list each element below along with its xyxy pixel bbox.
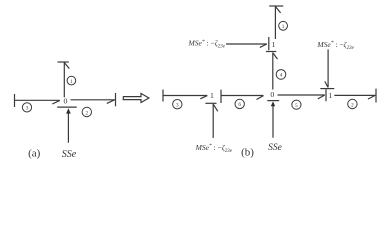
bond 1 half-arrow (a): [65, 63, 70, 69]
svg-text:1: 1: [210, 91, 214, 100]
svg-text:SSe: SSe: [268, 143, 282, 153]
svg-text:6: 6: [238, 102, 241, 108]
node label 3 (a): [22, 103, 31, 112]
wire MSe bottom-left signal (vertical): [212, 104, 214, 138]
wire MSe top-left bond: [226, 43, 267, 45]
bond 5 half-arrow: [318, 95, 325, 99]
SSe arrowhead (a): [66, 108, 71, 113]
bond 6 half-arrow: [257, 96, 264, 100]
bond 5 causal stroke: [325, 89, 327, 101]
source SSe label (a): [62, 149, 77, 160]
junction 1 right (part b): [328, 91, 332, 100]
wire bond 4 (vertical 0 to top 1): [272, 53, 274, 90]
MSe top-left half-arrow: [260, 44, 267, 47]
wire bond 2 (a right horizontal): [71, 99, 116, 101]
bond 4 causal stroke (below top 1): [266, 51, 276, 53]
svg-text:3: 3: [176, 103, 179, 109]
MSe top-left causal stroke: [268, 37, 270, 50]
caption (b): [241, 147, 254, 159]
SSe causal stroke (a, below 0): [57, 106, 77, 108]
node label 4: [276, 70, 286, 80]
source MSe top-right label: [316, 40, 354, 51]
bond 2 causal stroke (a right end): [115, 93, 117, 106]
svg-text:2: 2: [86, 110, 89, 116]
bond 3 half-arrow (b): [200, 96, 207, 99]
caption (a): [28, 147, 41, 159]
svg-text:1: 1: [272, 40, 276, 49]
node label 2 (a): [82, 107, 91, 116]
bond 2 causal stroke (b right end): [375, 89, 377, 103]
svg-text:0: 0: [63, 97, 67, 106]
bond 3 causal stroke (a left end): [14, 94, 16, 107]
svg-text:MSe* : −ζ23e: MSe* : −ζ23e: [188, 39, 226, 50]
bond 6 causal stroke (right of left 1): [220, 90, 222, 103]
svg-text:3: 3: [26, 106, 29, 112]
svg-text:SSe: SSe: [62, 149, 77, 160]
source MSe top-left label: [188, 39, 226, 50]
svg-text:1: 1: [328, 91, 332, 100]
junction 1 top (part b): [272, 40, 276, 49]
wire SSe signal (b vertical): [272, 105, 274, 138]
wire SSe signal (a vertical): [67, 112, 69, 143]
source MSe bottom-left label: [195, 143, 233, 154]
wire bond 2 (b right horizontal): [334, 94, 376, 96]
source SSe label (b): [268, 143, 282, 153]
bond 3 half-arrow (a): [52, 100, 60, 104]
svg-text:(b): (b): [241, 147, 254, 159]
MSe top-right causal stroke (above right 1): [320, 88, 334, 90]
wire bond 6 (left 1 to 0): [221, 95, 263, 97]
bond 1 causal stroke (b top bar): [269, 5, 283, 7]
node label 5: [292, 100, 301, 109]
bond 2 half-arrow (b): [368, 96, 375, 100]
svg-text:1: 1: [282, 24, 285, 30]
svg-text:MSe* : −ζ23e: MSe* : −ζ23e: [195, 143, 233, 154]
junction 0 (part b): [270, 90, 274, 99]
MSe bottom-left causal stroke (below left 1): [205, 102, 216, 104]
node label 1 (a): [67, 76, 76, 85]
wire bond 3 (b left horizontal): [163, 95, 207, 97]
svg-text:4: 4: [280, 73, 283, 79]
SSe arrowhead (b): [271, 101, 275, 106]
svg-text:MSe* : −ζ23e: MSe* : −ζ23e: [316, 40, 354, 51]
node label 2 (b): [348, 99, 357, 108]
svg-text:2: 2: [351, 102, 354, 108]
wire bond 1 (b vertical): [274, 6, 276, 39]
bond 2 half-arrow (a): [107, 100, 115, 104]
implication arrow: [123, 93, 149, 102]
bond 1 half-arrow (b): [276, 7, 281, 13]
svg-text:0: 0: [270, 90, 274, 99]
wire bond 3 (a left horizontal): [15, 99, 60, 101]
bond 1 causal stroke (a top bar): [58, 61, 69, 63]
junction 0 (part a): [63, 97, 67, 106]
svg-text:1: 1: [70, 79, 73, 85]
MSe bottom-left half-arrow: [213, 104, 218, 111]
wire bond 1 (a vertical): [63, 62, 65, 97]
svg-text:5: 5: [295, 103, 298, 109]
node label 1 (b): [279, 21, 288, 30]
wire bond 5 (0 to right 1): [278, 94, 325, 96]
svg-text:(a): (a): [28, 147, 41, 159]
bond 4 half-arrow: [273, 53, 278, 59]
MSe top-right half-arrow: [325, 81, 328, 87]
node label 3 (b): [173, 100, 182, 109]
SSe causal stroke (b, below 0): [267, 100, 279, 102]
node label 6: [235, 99, 244, 108]
bond 3 causal stroke (b left end): [162, 90, 164, 102]
wire MSe top-right signal (vertical): [327, 49, 329, 87]
junction 1 left (part b): [210, 91, 214, 100]
